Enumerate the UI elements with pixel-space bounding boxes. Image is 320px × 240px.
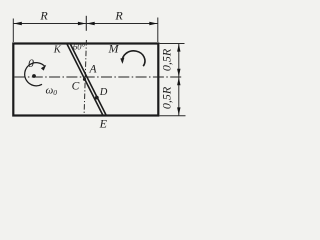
svg-text:0: 0 <box>28 58 34 70</box>
right dimension extension top <box>160 43 185 45</box>
point C dot <box>83 78 86 81</box>
arrow right end <box>149 22 157 25</box>
top dimension extension line right <box>157 18 159 43</box>
arrow up at top edge <box>177 44 180 52</box>
svg-text:E: E <box>99 116 108 130</box>
top dimension line <box>13 23 158 25</box>
vertical center line (dash-dot) from top edge to point A <box>84 40 86 115</box>
moment M arc <box>122 51 145 66</box>
svg-text:60°: 60° <box>73 42 86 52</box>
top dimension center tick <box>85 16 87 31</box>
point O dot <box>32 74 36 78</box>
svg-text:0,5R: 0,5R <box>160 86 174 109</box>
rod KE double line, left line <box>67 43 104 116</box>
moment M arrowhead <box>120 58 124 64</box>
arrow down at center line <box>177 69 180 77</box>
svg-text:A: A <box>88 64 97 76</box>
right dimension line <box>178 44 180 116</box>
arrow center pointing left <box>87 22 95 25</box>
arrow center pointing right <box>78 22 86 25</box>
point D dot <box>95 96 99 100</box>
rod KE double line, right line <box>70 43 107 116</box>
omega0 rotation arc around O <box>25 63 46 86</box>
svg-text:0,5R: 0,5R <box>160 48 174 71</box>
svg-text:K: K <box>53 44 62 55</box>
right dimension extension bottom <box>160 115 186 117</box>
arrow up at center line <box>177 78 180 86</box>
arrow left end <box>14 22 22 25</box>
svg-text:D: D <box>99 87 108 98</box>
svg-text:M: M <box>108 41 120 55</box>
omega0 arrowhead <box>41 65 46 71</box>
svg-text:C: C <box>72 80 80 92</box>
arrow down at bottom edge <box>177 107 180 115</box>
top dimension extension line left <box>12 19 14 43</box>
horizontal center line (dash-dot) <box>15 76 182 78</box>
svg-text:R: R <box>114 9 123 23</box>
plate rectangle <box>13 44 158 116</box>
svg-text:R: R <box>39 9 48 23</box>
